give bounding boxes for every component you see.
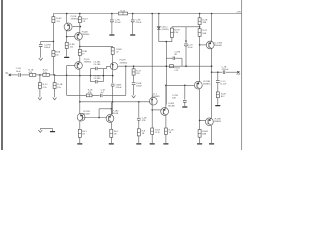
wire to U-T base [200,44,207,46]
wire bootstrap vertical [185,27,187,43]
node rail dot vA [66,13,68,15]
resistor R-T8 [164,128,167,134]
svg-text:56B: 56B [202,33,206,35]
wire T7 base from lower bus [149,101,150,103]
wire zobel cap to R [217,83,219,92]
wire rail down long vD [151,14,153,98]
node rail dot C-H6 [132,13,134,15]
transistor LP-2B5 (BD140) [106,115,114,123]
node vA input dot [66,75,68,77]
transistor PQ2B (2N3906) [75,33,83,41]
wire vA base link [67,65,76,67]
wire RC rect bottom branch [91,81,96,83]
wire RQ1T to Q2 emitter node [79,23,81,33]
node C-19 bus dot [185,65,187,67]
ground bar T8 [163,143,168,144]
svg-text:(2N5/8): (2N5/8) [162,29,169,31]
wire rail to RQ1T [79,14,81,17]
capacitor C-19B [172,57,174,60]
wire RC rect right side [102,69,104,82]
terminal OUT [237,71,239,73]
resistor R-T7 [151,128,154,134]
resistor R10B [111,47,114,54]
node rail dot R-20 [199,13,201,15]
wire branch cap to R [138,121,140,129]
ground bar branch [136,143,141,144]
wire Q1 collector down [66,31,68,37]
capacitor C-H5 [110,19,114,21]
resistor R-2B zobel [216,92,219,98]
wire RC rect top branch [91,68,96,70]
wire mid horizontal to RC block [67,74,80,76]
wire Q2 collector down [79,40,81,46]
ground arrow legend [38,130,42,132]
resistor R-9B 12k [65,42,68,48]
node R-20/R-21 dot [199,26,201,28]
svg-text:10uF: 10uF [16,71,22,73]
ground bar below C-H6 [130,34,135,35]
resistor R-21 [198,29,201,37]
svg-text:47uF: 47uF [188,47,194,49]
svg-text:2N3906: 2N3906 [71,19,79,21]
svg-text:IN: IN [6,73,9,75]
resistor R-Q5 [78,129,81,137]
resistor R branch [137,129,140,136]
ground bar lower output [209,143,214,144]
wire R-E3 down to node A [52,23,54,42]
node A junction dot [53,41,55,43]
capacitor C top branch [95,67,97,70]
node rail dot C-H5 [111,13,113,15]
wire R-1D to input node [49,74,54,76]
capacitor C16B [132,82,136,84]
node R-17 bus dot [133,65,135,67]
resistor R-6B [52,41,54,50]
wire feedback R to C [92,94,100,96]
svg-text:BD14B: BD14B [83,114,90,116]
wire R-4B to ground [54,88,56,97]
wire upper output emitter down [199,89,201,129]
svg-text:2N3904: 2N3904 [120,62,128,64]
node mirror collector dot [111,108,113,110]
svg-text:220uF: 220uF [116,87,123,89]
svg-text:2N3906: 2N3906 [82,34,90,36]
wire rail to U-T collector [211,14,213,42]
wire out cap to OUT terminal [226,71,237,73]
capacitor C-1HB [39,44,43,46]
wire to lower output base [200,119,207,121]
svg-text:B_1uF: B_1uF [220,84,227,86]
wire U-T base chain down [199,45,201,82]
wire T8 collector up [165,85,167,108]
svg-text:100uF: 100uF [44,47,51,49]
resistor R-1B [29,74,35,77]
svg-text:39B: 39B [202,22,206,24]
wire C-19B rect top [166,57,172,59]
wire RC rect left side [90,69,92,82]
wire T8 collector node to output base [166,84,195,86]
svg-text:2N34B5: 2N34B5 [152,96,160,98]
node bus-out dot [211,65,213,67]
ground bar Q5 [77,143,82,144]
node Q2 collector dot [79,46,81,48]
svg-text:47B: 47B [88,92,92,94]
svg-text:1BB: 1BB [202,134,207,136]
wire R-9B to ground [66,48,68,56]
node rail dot vG [211,13,213,15]
ground bar Q6 [109,143,114,144]
capacitor C-1B input coupling [18,73,20,77]
node U-T base dot [199,44,201,46]
terminal IN [9,74,11,76]
wire R-21 down to U-T base [199,36,201,45]
svg-text:C4-1B6: C4-1B6 [93,64,101,66]
wire feedback C to vF [103,94,126,96]
wire R-20 to R-21 [199,25,201,29]
transistor LP-1B5 (BD140) [77,113,85,121]
wire C-H6 to ground [132,22,134,34]
wire rail to Q1 emitter [66,14,68,23]
transistor LP-1B8 (2N3055) lower output [206,118,214,126]
wire PQ2H emitter down [112,70,114,83]
wire R2.1F top to corner [171,27,173,28]
node bootstrap-bias dot [185,40,187,42]
wire C-1B to R-1B [21,74,29,76]
wire U-T emitter down to out node [211,49,213,72]
svg-text:OUT: OUT [236,74,241,76]
capacitor C-8T feedback [100,94,102,97]
wire Q5 base right [82,117,107,119]
node Q1 base dot [80,26,82,28]
svg-text:2N5088: 2N5088 [214,45,222,47]
resistor R2.1F [170,28,173,37]
svg-text:2N3B55: 2N3B55 [203,84,211,86]
wire link to R-20/R-21 node [186,26,200,28]
wire rail to LED-1 [158,14,160,27]
capacitor C-1.5 zobel [216,80,220,82]
node PQ2H emitter dot [112,75,114,77]
wire branch R to ground [138,136,140,143]
node rail-RE3 corner [52,14,54,17]
resistor R-9B 47 [79,46,81,49]
resistor R-17 [132,69,135,75]
resistor R-E3 [52,17,55,23]
node RC-left dot [90,75,92,77]
ground bar R4-B2 [197,143,202,144]
resistor R-20 [198,18,201,25]
svg-text:470uF: 470uF [136,22,143,24]
node lower bus left dot [79,101,81,103]
node T8 collector dot [165,85,167,87]
wire C8B8 down to bus [112,86,114,114]
wire C-H5 to ground [111,22,113,34]
wire R-T8 to ground [165,134,167,143]
wire lower bus horizontal [80,101,149,103]
frame left border line [1,0,3,150]
svg-text:4700uF: 4700uF [222,69,230,71]
wire vF vertical from bus66 [125,66,127,95]
node C-21B dot [184,85,186,87]
resistor R-4B [54,75,56,82]
resistor R-1D [43,74,50,77]
wire T8 emitter down [165,115,167,128]
wire R-1B to R-1D [36,74,43,76]
node out dot [211,71,213,73]
wire lower output emitter down [211,126,213,143]
wire V+ rail left segment [53,13,118,15]
wire down to PQ1D collector [79,55,81,61]
transistor PQ1E (2N3906) [64,23,72,31]
wire feedback horizontal left [67,94,87,96]
ground bar below R-9B [64,57,69,58]
node rail dot vD [151,13,153,15]
wire vE from bias mid down [165,42,167,105]
wire rail to C-H6 [132,14,134,20]
capacitor C branch [137,117,141,119]
diode LED-1 [157,27,160,29]
wire PQ1D emitter to mid node [79,69,81,75]
node C8B8-bus dot [112,101,114,103]
wire rail to C-H5 [111,14,113,20]
wire PQ1D emitter down to lower bus [79,76,81,102]
wire branch down [138,102,140,118]
resistor R-16 in rail [118,12,127,15]
ground bar below C-H5 [109,34,114,35]
wire Q6 emitter down [110,122,112,129]
wire C-21B down [184,85,186,99]
wire R-T7 to ground [151,134,153,143]
wire mirror link up [98,109,100,118]
ground arrow below R-1C [38,98,42,100]
node rail dot LED [158,13,160,15]
transistor U-T1 (2N3055) [149,97,157,105]
wire Q6 collector up [110,103,112,115]
wire node A to C-1HB [41,40,54,42]
resistor R21B on bus [170,65,174,68]
wire V+ rail right segment [128,13,242,15]
capacitor C8B8 [111,83,115,85]
wire R-17 to C16B [133,75,135,82]
svg-text:100uF: 100uF [136,86,143,88]
wire T7 emitter to T8 base [152,109,161,111]
capacitor C bottom branch [95,80,97,83]
ground bar T7 [150,143,155,144]
node mirror base dot [98,117,100,119]
resistor R-FB 470 [86,94,92,97]
node zobel dot [217,71,219,73]
svg-text:BD14B: BD14B [112,113,119,115]
wire input node to vA [55,74,67,76]
node RC-right dot [103,75,105,77]
node lower base dot [199,120,201,122]
wire C16B to ground [133,85,135,95]
transistor U-T (2N5088) [206,41,214,49]
wire Q6 vertical joins vC [111,102,112,103]
wire C-21B to ground [184,103,186,107]
wire C-19B rect right side [181,58,183,66]
svg-text:10B: 10B [172,98,176,100]
wire zobel R to ground [217,98,219,105]
wire ground legend [39,129,41,130]
wire C-19 to bus [185,46,187,66]
wire LED-1 down corner [158,30,160,42]
resistor R4-B2 [198,130,201,138]
ground bar C-21B [182,106,187,107]
svg-text:BD-BB: BD-BB [168,106,175,108]
frame right border line [241,0,243,150]
svg-text:2N3B55: 2N3B55 [214,121,222,123]
transistor U-2B5 driver [161,108,169,116]
svg-text:C4-3B3: C4-3B3 [93,78,101,80]
ground bar zobel [215,105,220,106]
wire IN to C-1B [11,74,18,76]
capacitor C-1B output [222,70,224,74]
transistor PQ2H (2N3904) [110,62,117,69]
wire Q5 emitter down [79,121,81,129]
resistor RQ1T [78,17,81,23]
wire stub up to R2.1F [171,37,173,41]
node vF bus dot [125,65,127,67]
wire zobel down [217,72,219,80]
node input bias junction dot [54,74,56,76]
wire lower output collector up [211,72,213,118]
wire Q5 collector from bus [79,102,81,114]
wire collector node to R10B corner [80,45,113,47]
wire out node right [212,71,223,73]
node T7 emitter dot [151,109,153,111]
node branch bus dot [138,101,140,103]
wire to Q2 base [67,36,76,38]
node vE bus crossing dot [166,65,168,67]
ground arrow below R-4B [53,98,57,100]
wire bias mid to bootstrap [165,41,167,43]
ground arrow below C-1HB [39,58,43,60]
capacitor C-21B [183,99,187,101]
capacitor C-19 [184,43,188,45]
svg-text:2N3904: 2N3904 [84,61,92,63]
wire Q1 base to RQ1T node [73,26,81,28]
wire vA down to feedback [66,75,68,95]
svg-text:470uF: 470uF [115,22,122,24]
wire R10B to PQ2H collector [112,54,114,62]
resistor R-Q6 [110,129,113,137]
wire R-6B to input node [52,57,54,76]
wire T7 emitter down [151,105,153,128]
svg-text:+34V: +34V [236,12,241,14]
wire R-Q5 to ground [79,137,81,143]
wire rail to R-20 [199,14,201,18]
node input-R junction dot [39,74,41,76]
node Q1 collector to Q2 base dot [66,36,68,38]
wire PQ2H base [103,68,106,70]
ground arrow below C16B [132,95,136,97]
wire R4-B2 to ground [199,137,201,143]
transistor PQ1D (2N3904) [75,62,83,70]
node PQ1D emitter dot [79,75,81,77]
wire down to R-1C [39,75,41,83]
wire R-1C to ground [39,88,41,97]
wire R-Q6 to ground [110,137,112,143]
wire bus to R-17 [133,66,135,69]
wire C-1HB to ground [40,47,42,58]
transistor LP-1BB (2N3055) upper output [194,81,202,89]
svg-text:47B: 47B [142,120,146,122]
wire output bus horizontal [118,65,212,67]
capacitor C-H6 [131,19,135,21]
wire Q1 collector to R-9B [66,37,68,43]
node bias mid dot [166,41,168,43]
ground bar legend [50,131,55,132]
node rail dot vB [79,13,81,15]
resistor R-1C [38,83,41,89]
svg-text:2L.B: 2L.B [155,132,160,134]
